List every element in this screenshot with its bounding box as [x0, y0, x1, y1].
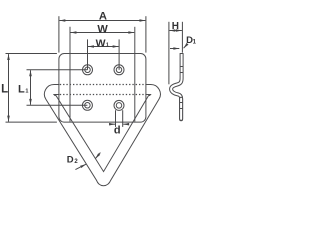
svg-text:H: H: [172, 21, 179, 32]
svg-text:W: W: [97, 23, 108, 35]
dimension D2 leader arrows: [75, 153, 100, 170]
hole bottom-right d: [114, 100, 124, 110]
outer edge of ring: [44, 85, 160, 186]
svg-text:2: 2: [74, 159, 78, 165]
dimension A: [59, 16, 146, 52]
svg-text:L: L: [18, 83, 25, 95]
dimension L1: [27, 70, 88, 106]
hole top-right: [114, 65, 124, 75]
svg-text:W: W: [96, 37, 106, 49]
dimension L: [6, 54, 57, 123]
tab bend edge right / W extension: [134, 27, 136, 122]
dimension W1: [88, 39, 120, 69]
svg-text:1: 1: [193, 39, 197, 45]
dimension H: [169, 22, 183, 85]
dimension d: [109, 110, 128, 127]
white mask over hidden ring top bar (behind plate): [59, 84, 145, 96]
tab bend edge left / W extension: [69, 27, 71, 122]
hidden hole ticks on side view upper: [180, 66, 183, 68]
svg-text:A: A: [99, 11, 107, 23]
dimension D1: [170, 45, 187, 49]
hidden line (dotted) upper: [60, 84, 146, 86]
hole top-left: [83, 65, 93, 75]
top edge cap of profile: [180, 53, 184, 55]
side view profile (S-bend strip): [171, 54, 183, 120]
svg-text:d: d: [114, 125, 121, 137]
svg-text:1: 1: [25, 89, 28, 95]
triangle ring D2 (rounded-corner inverted triangle, wire outline): [44, 85, 160, 186]
hidden hole ticks on side view lower: [180, 102, 183, 104]
hole bottom-left: [82, 100, 92, 110]
dimension W: [71, 32, 135, 34]
plate outline: [59, 54, 146, 123]
inner edge of ring: [54, 95, 151, 172]
svg-text:L: L: [1, 83, 8, 95]
hidden line (dotted) lower: [60, 94, 146, 96]
svg-text:D: D: [67, 155, 74, 166]
svg-text:1: 1: [106, 42, 109, 48]
